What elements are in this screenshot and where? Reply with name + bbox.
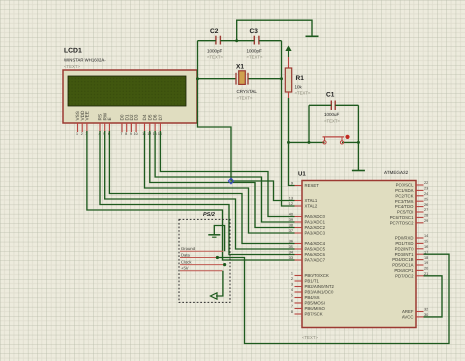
svg-text:24: 24 (424, 192, 428, 196)
svg-text:20: 20 (424, 267, 428, 271)
svg-text:32: 32 (424, 308, 428, 312)
svg-text:1000uF: 1000uF (324, 112, 340, 117)
svg-text:26: 26 (424, 203, 428, 207)
svg-text:25: 25 (424, 197, 428, 201)
svg-text:PD3/INT1: PD3/INT1 (395, 252, 414, 257)
svg-text:LCD1: LCD1 (64, 48, 82, 55)
svg-text:PA7/ADC7: PA7/ADC7 (305, 258, 326, 263)
svg-text:PB2/AIN0/INT2: PB2/AIN0/INT2 (305, 284, 335, 289)
svg-text:VEE: VEE (85, 111, 90, 120)
svg-text:8: 8 (291, 310, 293, 314)
svg-text:35: 35 (289, 245, 293, 249)
svg-text:PA2/ADC2: PA2/ADC2 (305, 225, 326, 230)
svg-text:38: 38 (289, 224, 293, 228)
svg-text:PA0/ADC0: PA0/ADC0 (305, 214, 326, 219)
svg-text:1: 1 (291, 272, 293, 276)
svg-text:29: 29 (424, 219, 428, 223)
svg-text:WINSTAR WH1602A-: WINSTAR WH1602A- (64, 58, 106, 63)
svg-text:PB5/MOSI: PB5/MOSI (305, 301, 325, 306)
svg-text:13: 13 (289, 197, 293, 201)
svg-text:PC2/TCK: PC2/TCK (395, 193, 413, 198)
svg-text:9: 9 (130, 132, 132, 136)
svg-text:PA4/ADC4: PA4/ADC4 (305, 241, 326, 246)
svg-text:1000pF: 1000pF (247, 49, 263, 54)
svg-text:<TEXT>: <TEXT> (247, 55, 263, 60)
svg-text:PD5/OC1A: PD5/OC1A (392, 263, 413, 268)
svg-text:ATMEGA32: ATMEGA32 (384, 170, 409, 175)
svg-text:PD6/ICP1: PD6/ICP1 (394, 268, 414, 273)
svg-text:12: 12 (289, 202, 293, 206)
svg-text:<TEXT>: <TEXT> (64, 64, 80, 69)
svg-text:7: 7 (291, 305, 293, 309)
svg-text:14: 14 (424, 234, 428, 238)
svg-text:2: 2 (291, 277, 293, 281)
svg-text:X1: X1 (236, 64, 244, 71)
svg-text:9: 9 (291, 182, 293, 186)
svg-text:R1: R1 (296, 75, 305, 82)
svg-text:C1: C1 (326, 92, 335, 99)
svg-text:XTAL1: XTAL1 (305, 198, 318, 203)
svg-text:D3: D3 (134, 114, 139, 120)
svg-text:PC5/TDI: PC5/TDI (397, 210, 413, 215)
svg-text:22: 22 (424, 181, 428, 185)
svg-text:6: 6 (291, 299, 293, 303)
svg-text:Clock: Clock (181, 259, 192, 264)
svg-text:PC6/TOSC1: PC6/TOSC1 (390, 215, 414, 220)
svg-text:U1: U1 (298, 171, 306, 178)
svg-text:27: 27 (424, 208, 428, 212)
svg-text:PB6/MISO: PB6/MISO (305, 306, 326, 311)
svg-text:<TEXT>: <TEXT> (302, 335, 318, 340)
svg-text:7: 7 (121, 132, 123, 136)
svg-text:3: 3 (291, 283, 293, 287)
svg-text:PA6/ADC6: PA6/ADC6 (305, 252, 326, 257)
svg-text:D7: D7 (158, 114, 163, 120)
svg-text:40: 40 (289, 213, 293, 217)
svg-text:Ground: Ground (181, 246, 196, 251)
svg-text:2: 2 (81, 132, 83, 136)
svg-text:C2: C2 (210, 28, 219, 35)
svg-text:10k: 10k (295, 85, 303, 90)
svg-text:28: 28 (424, 214, 428, 218)
svg-text:PA5/ADC5: PA5/ADC5 (305, 247, 326, 252)
svg-text:PA1/ADC1: PA1/ADC1 (305, 220, 326, 225)
svg-text:36: 36 (289, 240, 293, 244)
svg-text:PD4/OC1B: PD4/OC1B (392, 257, 413, 262)
svg-text:<TEXT>: <TEXT> (207, 55, 223, 60)
svg-text:Data: Data (181, 252, 191, 257)
svg-text:PA3/ADC3: PA3/ADC3 (305, 231, 326, 236)
svg-text:XTAL2: XTAL2 (305, 204, 318, 209)
svg-text:PD7/OC2: PD7/OC2 (395, 273, 414, 278)
svg-text:D6: D6 (153, 114, 158, 120)
svg-text:34: 34 (289, 251, 293, 255)
svg-text:PC0/SCL: PC0/SCL (396, 183, 415, 188)
svg-text:D5: D5 (147, 114, 152, 120)
svg-text:PS/2: PS/2 (203, 212, 215, 218)
svg-text:4: 4 (291, 288, 293, 292)
svg-text:23: 23 (424, 187, 428, 191)
svg-text:C3: C3 (250, 28, 259, 35)
svg-text:16: 16 (424, 245, 428, 249)
svg-text:1: 1 (76, 132, 78, 136)
svg-text:CRYSTAL: CRYSTAL (237, 89, 258, 94)
svg-text:<TEXT>: <TEXT> (295, 91, 311, 96)
svg-text:PB7/SCK: PB7/SCK (305, 312, 323, 317)
svg-text:PB3/AIN1/OC0: PB3/AIN1/OC0 (305, 290, 335, 295)
svg-text:PB0/T0/XCK: PB0/T0/XCK (305, 273, 329, 278)
svg-text:5: 5 (291, 294, 293, 298)
svg-text:1000pF: 1000pF (207, 49, 223, 54)
svg-text:39: 39 (289, 218, 293, 222)
svg-text:37: 37 (289, 229, 293, 233)
svg-text:+5V: +5V (181, 266, 189, 271)
svg-text:PC7/TOSC2: PC7/TOSC2 (390, 220, 414, 225)
svg-text:PB4/SS: PB4/SS (305, 295, 320, 300)
svg-text:<TEXT>: <TEXT> (324, 119, 340, 124)
svg-text:15: 15 (424, 240, 428, 244)
svg-text:PD2/INT0: PD2/INT0 (395, 246, 414, 251)
svg-text:AREF: AREF (402, 309, 414, 314)
svg-text:PC3/TMS: PC3/TMS (395, 199, 414, 204)
svg-text:PD0/RXD: PD0/RXD (395, 236, 414, 241)
svg-text:8: 8 (125, 132, 127, 136)
svg-text:33: 33 (289, 256, 293, 260)
svg-text:<TEXT>: <TEXT> (237, 96, 253, 101)
svg-text:PC1/SDA: PC1/SDA (395, 188, 414, 193)
svg-text:19: 19 (424, 261, 428, 265)
svg-text:PB1/T1: PB1/T1 (305, 279, 320, 284)
svg-text:AVCC: AVCC (402, 315, 414, 320)
svg-text:18: 18 (424, 256, 428, 260)
svg-text:RESET: RESET (305, 183, 320, 188)
svg-text:PC4/TDO: PC4/TDO (395, 204, 414, 209)
svg-text:PD1/TXD: PD1/TXD (395, 241, 413, 246)
svg-text:D4: D4 (142, 114, 147, 120)
svg-text:E: E (107, 117, 112, 120)
svg-text:10: 10 (134, 132, 138, 136)
